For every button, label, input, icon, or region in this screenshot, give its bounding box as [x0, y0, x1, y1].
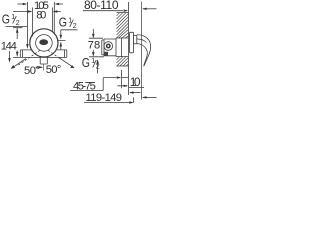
svg-text:50°: 50°	[46, 64, 62, 76]
svg-text:G: G	[2, 12, 10, 26]
svg-text:119-149: 119-149	[86, 92, 123, 104]
svg-text:80-110: 80-110	[84, 0, 119, 12]
svg-text:45-75: 45-75	[73, 81, 96, 93]
svg-text:10: 10	[130, 75, 141, 89]
svg-text:2: 2	[16, 20, 20, 27]
svg-text:144: 144	[1, 41, 17, 53]
svg-text:80: 80	[36, 10, 46, 22]
svg-text:78: 78	[88, 40, 101, 52]
svg-text:50°: 50°	[24, 65, 40, 77]
